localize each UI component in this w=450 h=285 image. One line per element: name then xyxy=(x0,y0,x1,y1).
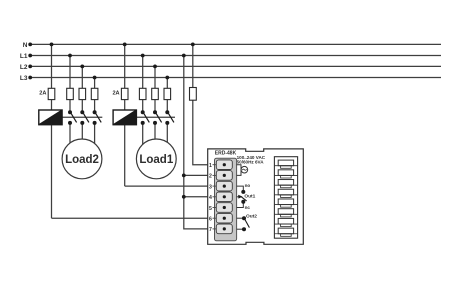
svg-text:Out1: Out1 xyxy=(244,193,255,199)
wire coil K2 bottom down xyxy=(51,125,53,219)
contact pin7 dot xyxy=(237,227,246,231)
pin 5 stub xyxy=(213,207,217,209)
junction dot L2 x82 xyxy=(80,65,84,69)
contactor coil K1 xyxy=(113,110,136,125)
junction dot N x124 xyxy=(123,43,127,47)
wire contact a to Load2 xyxy=(69,123,71,159)
contact Out2 (pin6) xyxy=(237,216,250,227)
wire to terminal 3 xyxy=(125,185,208,187)
terminal cell 2 xyxy=(216,171,232,181)
wire contact c to Load1 xyxy=(166,123,168,159)
wire to terminal 6 xyxy=(52,217,209,219)
wire coil K1 bottom down xyxy=(124,125,126,186)
fuse group2 b xyxy=(79,88,86,99)
right terminal 5 xyxy=(274,199,297,207)
terminal cell 4 xyxy=(216,192,232,202)
terminal cell 5 xyxy=(216,203,232,213)
wire N drop to coil K1 xyxy=(124,44,126,110)
junction dot L1 x142 xyxy=(141,54,145,58)
fuse group2 c xyxy=(91,88,98,99)
wire contact c to Load2 xyxy=(94,123,96,159)
pin 1 stub xyxy=(213,164,217,166)
junction dot L3 x94 xyxy=(93,76,97,80)
junction dot T4 wire xyxy=(182,195,186,199)
contactor coil K2 xyxy=(39,110,62,125)
junction dot L2 x155 xyxy=(153,65,157,69)
load M1 circle xyxy=(136,139,176,179)
right terminal 7 xyxy=(274,218,297,226)
svg-text:7: 7 xyxy=(209,227,212,233)
svg-text:L2: L2 xyxy=(20,64,28,71)
terminal cell 7 xyxy=(216,224,232,234)
contact nc (pin5) xyxy=(237,200,246,208)
contact K2 b xyxy=(80,110,89,125)
wire L3 drop contact c xyxy=(166,78,168,113)
junction dot T2 wire xyxy=(182,174,186,178)
contact K1 b xyxy=(153,110,162,125)
wire N drop to coil K2 xyxy=(51,44,53,110)
node L1 start dot xyxy=(28,54,32,58)
contact common Out1 (pin4) xyxy=(237,195,247,201)
contact K1 a xyxy=(141,110,150,125)
fuse group1 b xyxy=(152,88,159,99)
right terminal 3 xyxy=(274,180,297,188)
contact K2 a xyxy=(68,110,77,125)
svg-text:ERD-48K: ERD-48K xyxy=(215,151,237,157)
svg-text:1: 1 xyxy=(209,163,212,169)
svg-text:Load1: Load1 xyxy=(139,154,173,166)
right terminal 6 xyxy=(274,209,297,217)
svg-text:L1: L1 xyxy=(20,53,28,60)
pin 2 stub xyxy=(213,174,217,176)
wire contact b to Load1 xyxy=(154,123,156,159)
wire bus L1 xyxy=(30,55,441,57)
node N start dot xyxy=(28,43,32,47)
wire L2 drop contact b xyxy=(154,66,156,112)
terminal cell 3 xyxy=(216,181,232,191)
load M2 circle xyxy=(62,139,102,179)
wire N feed vertical xyxy=(193,44,208,164)
wire L1 feed vertical xyxy=(184,56,208,229)
svg-text:Load2: Load2 xyxy=(65,154,99,166)
wire L1 drop contact a xyxy=(142,56,144,113)
svg-text:5: 5 xyxy=(209,206,212,212)
junction dot N x51 xyxy=(50,43,54,47)
svg-text:N: N xyxy=(23,42,28,49)
wire bus N xyxy=(30,43,441,45)
wire bus L2 xyxy=(30,65,441,67)
fuse 2A group1 coil xyxy=(121,88,128,99)
svg-text:3: 3 xyxy=(209,184,212,190)
svg-text:2A: 2A xyxy=(39,91,46,97)
terminal cell 6 xyxy=(216,213,232,223)
pin 7 stub xyxy=(213,228,217,230)
contact K2 c xyxy=(93,110,102,125)
svg-text:Out2: Out2 xyxy=(246,213,257,219)
wire L3 drop contact c xyxy=(94,78,96,113)
wire contact b to Load2 xyxy=(81,123,83,159)
wire bus L3 xyxy=(30,77,441,79)
wire contact a to Load1 xyxy=(142,123,144,159)
contact K1 c xyxy=(165,110,174,125)
pin 3 stub xyxy=(213,185,217,187)
svg-text:2A: 2A xyxy=(112,91,119,97)
svg-text:L3: L3 xyxy=(20,75,28,82)
wire actuator bar K1 xyxy=(135,116,175,118)
junction dot L3 x167 xyxy=(165,76,169,80)
junction dot L1 x70 xyxy=(68,54,72,58)
relay module ERD-48K body xyxy=(208,149,304,244)
svg-text:6: 6 xyxy=(209,217,212,223)
right terminal 4 xyxy=(274,189,297,197)
junction dot N x192 xyxy=(191,43,195,47)
fuse group1 a xyxy=(139,88,146,99)
right terminal 1 xyxy=(274,160,297,168)
fuse group2 a xyxy=(67,88,74,99)
right terminal 8 xyxy=(274,228,297,236)
right terminal 2 xyxy=(274,170,297,178)
terminal strip left xyxy=(215,158,237,241)
fuse 2A group2 coil xyxy=(48,88,55,99)
fuse group1 c xyxy=(164,88,171,99)
pin 4 stub xyxy=(213,196,217,198)
node L2 start dot xyxy=(28,65,32,69)
fuse ERD supply xyxy=(190,88,197,101)
wire to terminal 2 xyxy=(184,174,208,176)
pin 6 stub xyxy=(213,217,217,219)
svg-text:no: no xyxy=(245,183,251,188)
AC source symbol xyxy=(237,165,248,176)
node L3 start dot xyxy=(28,76,32,80)
svg-text:4: 4 xyxy=(209,195,212,201)
wire L2 drop contact b xyxy=(81,66,83,112)
svg-text:nc: nc xyxy=(245,205,251,210)
contact no (pin3) xyxy=(237,186,246,194)
terminal block right xyxy=(274,157,297,239)
svg-text:50/60Hz 6VA: 50/60Hz 6VA xyxy=(237,160,265,165)
wire to terminal 4 xyxy=(184,196,208,198)
wire actuator bar K2 xyxy=(62,116,102,118)
junction dot L1 x183 xyxy=(182,54,186,58)
wire L1 drop contact a xyxy=(69,56,71,113)
terminal cell 1 xyxy=(216,160,232,170)
svg-text:2: 2 xyxy=(209,174,212,180)
